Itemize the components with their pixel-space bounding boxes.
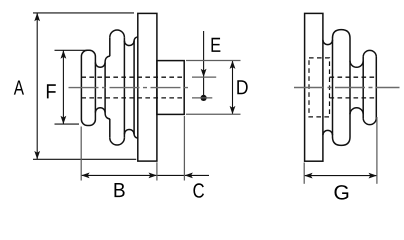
label F (47, 84, 56, 98)
set screw dot (201, 95, 207, 101)
groove 2R root arc top (350, 61, 363, 68)
ext C right (183, 116, 185, 181)
leader E (203, 31, 205, 98)
sheave 2 dome bottom (110, 138, 125, 145)
flange right view (305, 13, 323, 161)
arrow D bottom (230, 106, 236, 114)
dome 1R top (333, 30, 351, 38)
groove 1 root arc bottom (95, 108, 105, 113)
groove 1 right wall with hooks (105, 56, 110, 119)
dim line A (36, 13, 38, 159)
hidden hub right view (309, 58, 330, 117)
dome 2R top (363, 50, 376, 57)
bore hidden bottom right view (330, 97, 377, 99)
arrow D top (230, 61, 236, 69)
ext D bottom (186, 113, 241, 115)
centerline left view (69, 87, 191, 89)
label E (212, 38, 221, 52)
dim line B C (81, 174, 209, 176)
bore hidden top right view (330, 76, 377, 78)
bore hidden line bottom (81, 97, 184, 99)
sheave 2 dome top (110, 30, 125, 37)
arrow B left (81, 173, 89, 179)
ext B/C middle (156, 162, 158, 180)
dim line G (304, 175, 377, 177)
ext line A bottom (33, 158, 136, 160)
groove 2 root arc + hook top (124, 37, 137, 46)
groove 1R root arc top (323, 40, 333, 45)
dome 2R left edge (362, 57, 364, 118)
arrow G right (369, 173, 377, 179)
ext line F bottom (55, 123, 80, 125)
extension lines gray, left view (81, 61, 240, 181)
groove 2 right wall (133, 41, 135, 135)
dome 1R right edge (349, 38, 351, 137)
dim line F (62, 50, 64, 124)
sheave 1 (small, capsule) (81, 50, 95, 125)
arrow E down (201, 69, 207, 77)
arrow A bottom (34, 151, 40, 159)
groove 1 root arc top (95, 62, 105, 67)
label G (335, 185, 349, 200)
label A (14, 81, 24, 95)
large flange (138, 13, 157, 161)
ext bore bottom (192, 97, 212, 99)
ext B left (80, 127, 82, 181)
arrow A top (34, 13, 40, 21)
arrow F bottom (61, 116, 67, 124)
ext G left (303, 163, 305, 184)
arrow F top (61, 50, 67, 58)
dome 1R left edge (332, 38, 334, 137)
arrow G left (304, 173, 312, 179)
dome 2R right edge (375, 57, 377, 118)
groove 2 root arc + hook bottom (124, 129, 137, 138)
dome 2R bottom (363, 118, 376, 125)
arrow B right (149, 173, 157, 179)
label B (114, 183, 124, 197)
dim line D (232, 61, 234, 115)
ext D top (186, 60, 241, 62)
centerline right view (294, 87, 400, 89)
sheave 2 left edge bottom (109, 119, 111, 138)
groove 1R root arc bottom (323, 130, 333, 135)
ext line F top (55, 49, 88, 51)
ext bore top (192, 76, 216, 78)
dome 1R bottom (333, 137, 351, 145)
ext G right (376, 117, 378, 184)
label D (237, 80, 247, 94)
label C (193, 183, 204, 198)
bore hidden line top (81, 76, 184, 78)
sheave 2 right edge / groove 2 left wall (123, 37, 125, 137)
sheave 2 left edge top (109, 37, 111, 56)
arrow C right outside (185, 173, 193, 179)
ext line A top (33, 12, 134, 14)
hub (157, 61, 184, 115)
groove 2R root arc bottom (350, 108, 363, 115)
